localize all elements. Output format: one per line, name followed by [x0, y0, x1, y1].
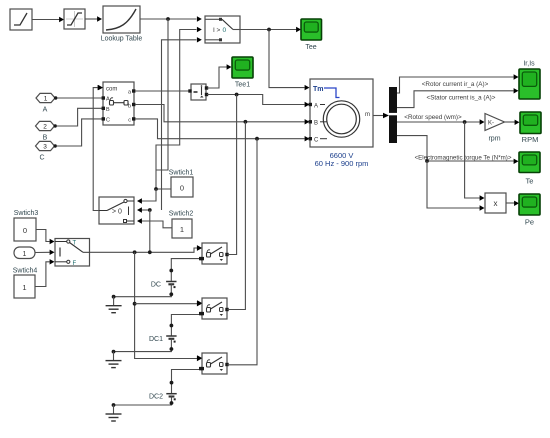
- node on lookup wire: [166, 17, 170, 21]
- wire phase a to machine A: [207, 95, 310, 108]
- constant Swtich3: [14, 218, 36, 241]
- input port 1: [36, 93, 57, 102]
- wire phase b to machine B: [136, 105, 310, 125]
- wire saturation to lookup table: [85, 16, 102, 21]
- wire input1 to breaker A: [57, 97, 103, 99]
- wire switchB to breaker com: [93, 85, 102, 211]
- wire rotor current to scope: [397, 74, 519, 93]
- svg-text:RPM: RPM: [522, 135, 539, 144]
- svg-text:com: com: [106, 87, 117, 93]
- svg-text:<Electromagnetic torque Te (N*: <Electromagnetic torque Te (N*m)>: [415, 155, 512, 162]
- label DC1: [149, 336, 163, 343]
- svg-text:>: >: [217, 27, 221, 34]
- wire control to switchB input2: [137, 207, 150, 212]
- wire ramp to saturation: [32, 17, 64, 22]
- svg-text:Ir,Is: Ir,Is: [523, 61, 535, 68]
- wire current measure to Tee1: [207, 64, 232, 88]
- saturation block: [64, 9, 85, 29]
- switch block >0 mirrored: [99, 197, 134, 224]
- svg-text:x: x: [494, 199, 498, 208]
- svg-text:<Rotor current ir_a (A)>: <Rotor current ir_a (A)>: [422, 81, 489, 88]
- svg-text:I: I: [213, 27, 215, 34]
- constant one oval: [14, 247, 35, 259]
- wire aux vertical: [156, 19, 168, 170]
- svg-text:Tee: Tee: [305, 44, 316, 51]
- lookup table block: [103, 6, 140, 33]
- svg-text:1: 1: [44, 96, 48, 103]
- wire TF output: [90, 245, 202, 252]
- svg-text:B: B: [43, 135, 48, 142]
- ground 2: [106, 352, 122, 368]
- wire breaker3 output: [227, 139, 257, 365]
- wire switch to Tee scope: [240, 27, 301, 32]
- wire DC1 to breaker2: [170, 312, 203, 336]
- ground 1: [106, 297, 122, 313]
- wire constant1 to switchB input3: [137, 218, 172, 228]
- label machine rating: [315, 159, 369, 168]
- svg-text:Swtich3: Swtich3: [14, 210, 39, 217]
- wire oval to TF: [35, 250, 55, 255]
- svg-text:F: F: [73, 261, 77, 267]
- scope RPM: [520, 112, 541, 134]
- label rpm: [488, 136, 500, 143]
- wire torque to product: [427, 161, 485, 211]
- node phase a junction: [235, 93, 239, 97]
- wire ctrl to breaker2: [135, 301, 202, 306]
- node torque junction: [267, 28, 271, 32]
- svg-text:Pe: Pe: [525, 218, 534, 227]
- scope Pe: [519, 194, 540, 215]
- svg-text:1: 1: [22, 283, 26, 292]
- svg-text:<Rotor speed (wm)>: <Rotor speed (wm)>: [404, 114, 462, 121]
- battery DC: [166, 282, 176, 289]
- svg-text:Swtich4: Swtich4: [13, 268, 38, 275]
- svg-text:1: 1: [23, 251, 27, 258]
- svg-text:m: m: [365, 112, 370, 118]
- node TF junction 1: [133, 250, 137, 254]
- svg-text:3: 3: [43, 144, 47, 151]
- wire constant0 to switchB input1: [137, 189, 156, 204]
- wire DC to ground1: [112, 284, 174, 299]
- Tee1 scope: [232, 57, 253, 78]
- wire breaker2 output: [227, 122, 245, 310]
- label Te: [526, 177, 534, 186]
- label Pe: [525, 218, 534, 227]
- wire ctrl to breakers 2 3: [135, 252, 202, 361]
- svg-text:C: C: [314, 138, 319, 144]
- label rotor current: [422, 81, 489, 88]
- svg-text:Lookup Table: Lookup Table: [101, 36, 143, 43]
- wire rotor speed to gain: [397, 119, 485, 124]
- svg-text:B: B: [314, 121, 318, 127]
- ground 3: [106, 405, 122, 421]
- three-phase breaker block: [98, 82, 135, 125]
- svg-text:C: C: [106, 118, 110, 124]
- wire Swtich4 to TF: [35, 259, 55, 286]
- switch block TF: [55, 239, 90, 267]
- wire DC2 to breaker3: [170, 367, 203, 394]
- wire control vertical: [149, 210, 151, 252]
- label rotor speed: [404, 114, 462, 121]
- scope Te: [519, 152, 540, 173]
- svg-text:60 Hz - 900 rpm: 60 Hz - 900 rpm: [315, 159, 369, 168]
- battery DC1: [166, 336, 176, 343]
- label DC: [151, 282, 161, 289]
- svg-text:C: C: [39, 155, 44, 162]
- svg-text:<Stator current is_a (A)>: <Stator current is_a (A)>: [427, 95, 496, 102]
- breaker 3: [197, 353, 229, 374]
- svg-text:2: 2: [43, 124, 47, 131]
- node control junction upper: [148, 208, 152, 212]
- svg-text:Tm: Tm: [313, 86, 324, 93]
- Tee scope: [301, 19, 322, 40]
- label RPM: [522, 135, 539, 144]
- wire input2 to breaker B: [57, 108, 104, 126]
- svg-text:B: B: [106, 107, 110, 113]
- label electromagnetic torque: [415, 155, 512, 162]
- node TF junction 2: [148, 250, 152, 254]
- wire breaker a to current measure: [136, 90, 190, 92]
- wire torque to Te scope: [397, 136, 519, 164]
- node rotor speed junction: [463, 120, 467, 124]
- svg-text:DC2: DC2: [149, 394, 163, 401]
- bus selector: [389, 87, 397, 143]
- node torque Te junction: [425, 159, 429, 163]
- svg-text:DC1: DC1: [149, 336, 163, 343]
- label DC2: [149, 394, 163, 401]
- wire input3 to breaker C: [57, 119, 104, 146]
- wire machine m to bus selector: [373, 113, 389, 118]
- wire product to Pe scope: [506, 201, 519, 206]
- wire phase c to machine C: [136, 119, 310, 141]
- breaker 2: [197, 298, 229, 319]
- wire constant0 net: [156, 27, 202, 189]
- label Lookup Table: [101, 36, 143, 43]
- svg-text:DC: DC: [151, 282, 161, 289]
- switch block I>0 (torque select): [205, 16, 240, 43]
- svg-text:0: 0: [180, 184, 184, 193]
- svg-text:rpm: rpm: [488, 136, 500, 143]
- svg-text:Swtich1: Swtich1: [169, 170, 194, 177]
- label stator current: [427, 95, 496, 102]
- svg-text:> 0: > 0: [112, 209, 122, 216]
- svg-text:Te: Te: [526, 177, 534, 186]
- node constant0 junction: [154, 187, 158, 191]
- wire Swtich3 to TF: [36, 230, 55, 245]
- svg-text:0: 0: [223, 27, 227, 34]
- svg-text:Tee1: Tee1: [235, 82, 250, 89]
- svg-text:A: A: [314, 104, 318, 110]
- constant Swtich2: [172, 219, 192, 238]
- ramp source block: [10, 9, 32, 30]
- wire DC to breaker1: [169, 257, 202, 282]
- wire control to switch u3: [162, 37, 202, 210]
- label machine voltage: [330, 151, 354, 160]
- label Tee1: [235, 82, 250, 89]
- label C: [39, 155, 44, 162]
- product block: [485, 193, 506, 213]
- constant Swtich1: [171, 177, 193, 197]
- label B: [43, 135, 48, 142]
- label Swtich4: [13, 268, 38, 275]
- wire breaker1 output: [227, 95, 236, 255]
- input port 2: [36, 121, 57, 130]
- node phase c junction: [255, 137, 259, 141]
- constant Swtich4: [14, 275, 35, 298]
- scope Ir Is: [519, 69, 540, 99]
- wire DC1 to ground2: [112, 339, 174, 354]
- svg-text:A: A: [43, 107, 48, 114]
- input port 3: [36, 141, 57, 150]
- breaker 1: [197, 243, 229, 264]
- wire gain to RPM scope: [505, 120, 520, 125]
- wire speed to product: [465, 122, 485, 201]
- svg-text:c: c: [128, 118, 131, 124]
- label Swtich2: [169, 211, 194, 218]
- label A: [43, 107, 48, 114]
- label Swtich1: [169, 170, 194, 177]
- node phase b junction: [244, 120, 248, 124]
- wire DC2 to ground3: [112, 396, 174, 407]
- svg-text:0: 0: [23, 226, 27, 235]
- current measurement block: [188, 84, 208, 100]
- svg-text:K-: K-: [488, 121, 494, 127]
- wire lookup to switch input1: [140, 16, 202, 21]
- label Ir Is: [523, 61, 535, 68]
- label Tee: [305, 44, 316, 51]
- svg-text:1: 1: [180, 225, 184, 234]
- wire stator current to scope: [397, 88, 519, 108]
- battery DC2: [166, 394, 176, 401]
- synchronous machine block: [309, 79, 373, 147]
- svg-text:Swtich2: Swtich2: [169, 211, 194, 218]
- label Swtich3: [14, 210, 39, 217]
- node ctrl breaker2 junction: [133, 302, 137, 306]
- wire torque to machine Tm: [269, 30, 310, 91]
- gain rpm: [485, 114, 505, 131]
